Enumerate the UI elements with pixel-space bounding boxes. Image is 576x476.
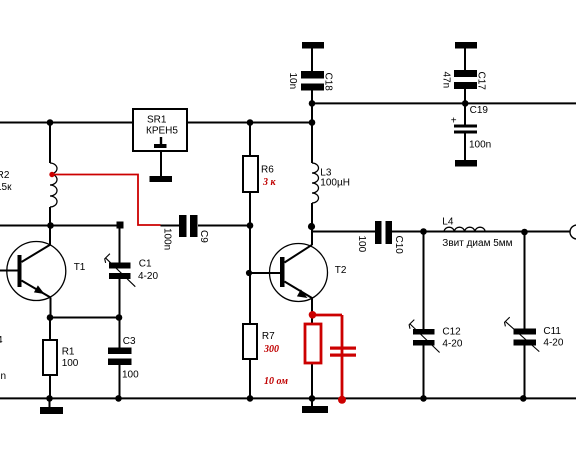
- svg-text:КРЕН5: КРЕН5: [146, 126, 178, 137]
- svg-text:C3: C3: [123, 336, 136, 347]
- svg-text:100µH: 100µH: [320, 178, 350, 189]
- svg-text:47n: 47n: [441, 72, 452, 89]
- svg-text:4: 4: [0, 335, 3, 346]
- svg-text:C1: C1: [139, 259, 152, 270]
- svg-text:100: 100: [122, 370, 139, 381]
- svg-text:R2: R2: [0, 170, 10, 181]
- svg-text:SR1: SR1: [147, 115, 167, 126]
- svg-text:C10: C10: [393, 236, 404, 255]
- svg-text:L4: L4: [442, 217, 454, 228]
- svg-text:4-20: 4-20: [138, 271, 158, 282]
- svg-text:4-20: 4-20: [543, 338, 563, 349]
- svg-text:T1: T1: [74, 262, 86, 273]
- svg-text:100: 100: [62, 358, 79, 369]
- svg-text:C11: C11: [543, 326, 561, 337]
- svg-text:Звит диам 5мм: Звит диам 5мм: [442, 238, 512, 249]
- svg-text:10 ом: 10 ом: [264, 376, 288, 387]
- svg-text:T2: T2: [335, 265, 347, 276]
- svg-text:3 к: 3 к: [262, 177, 277, 188]
- svg-text:R6: R6: [261, 165, 274, 176]
- svg-text:100n: 100n: [469, 140, 491, 151]
- svg-text:300: 300: [263, 344, 279, 355]
- svg-text:R1: R1: [62, 347, 75, 358]
- svg-text:100n: 100n: [0, 371, 6, 382]
- svg-text:100n: 100n: [162, 228, 173, 250]
- svg-text:C19: C19: [470, 105, 489, 116]
- svg-text:+: +: [451, 116, 457, 127]
- svg-text:R7: R7: [262, 331, 275, 342]
- svg-text:C17: C17: [476, 72, 487, 91]
- svg-text:10n: 10n: [287, 73, 298, 90]
- svg-text:100: 100: [356, 236, 367, 253]
- svg-text:4-20: 4-20: [442, 338, 462, 349]
- svg-text:15к: 15к: [0, 182, 12, 193]
- svg-text:C12: C12: [442, 327, 461, 338]
- svg-text:C18: C18: [323, 73, 334, 92]
- svg-text:C9: C9: [198, 230, 209, 243]
